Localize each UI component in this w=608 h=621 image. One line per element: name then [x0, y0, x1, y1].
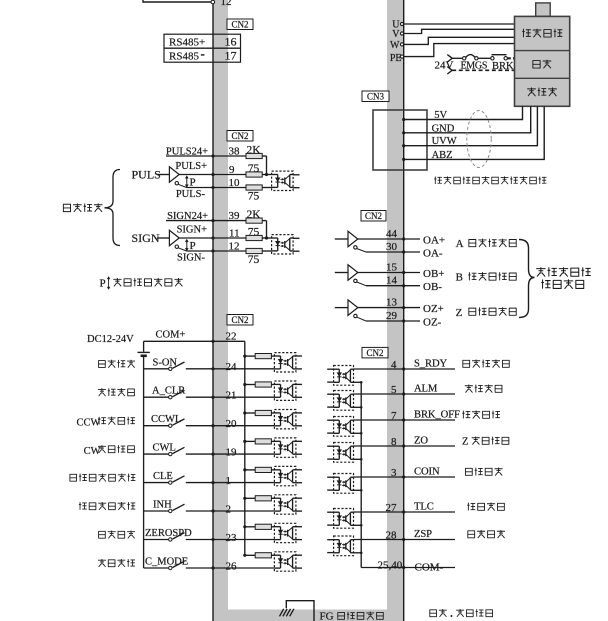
- wire OA- (pin 30): [357, 249, 366, 253]
- svg-text:10: 10: [229, 177, 241, 189]
- switch CCWL: [169, 424, 172, 427]
- svg-text:14: 14: [386, 275, 398, 287]
- svg-text:C_MODE: C_MODE: [145, 557, 188, 568]
- connector label CN2 (output section): [362, 347, 388, 358]
- svg-text:5V: 5V: [434, 110, 447, 121]
- opto output stubs (SIGN): [293, 237, 299, 239]
- wire FG frame ground: [286, 601, 314, 621]
- svg-text:24: 24: [226, 361, 238, 373]
- junction dot OA+: [402, 237, 405, 240]
- connector label CN2 (top): [227, 19, 253, 30]
- chinese description S_RDY: [462, 359, 509, 367]
- optocoupler (PULS input): [272, 171, 294, 190]
- input row CCWL (pin 20): [144, 425, 169, 427]
- chinese description A_CLR: [98, 388, 135, 396]
- connector label CN2 (encoder feedback): [361, 211, 386, 222]
- wire 24V to EMGS: [452, 57, 462, 59]
- wire OZ+ (pin 13): [358, 307, 404, 309]
- resistor 2K (PULS): [246, 153, 262, 158]
- svg-text:75: 75: [248, 254, 260, 266]
- svg-text:16: 16: [225, 35, 237, 49]
- junction dot ZO: [402, 444, 405, 447]
- svg-text:Z: Z: [462, 437, 468, 448]
- 24V supply chevron (+): [447, 55, 452, 62]
- svg-text:SIGN-: SIGN-: [177, 253, 206, 264]
- svg-text:30: 30: [386, 241, 398, 253]
- switch S-ON: [169, 367, 172, 370]
- svg-text:75: 75: [248, 163, 260, 175]
- svg-text:OZ-: OZ-: [423, 316, 442, 328]
- svg-text:COM-: COM-: [415, 561, 444, 573]
- terminal circle PE: [400, 55, 403, 58]
- wire PULS+ (pin 9): [179, 174, 246, 176]
- junction dot S_RDY: [402, 367, 405, 370]
- optocoupler (input A_CLR): [274, 381, 296, 400]
- chinese description BRK_OFF: [462, 410, 500, 418]
- svg-text:DC12-24V: DC12-24V: [87, 334, 134, 345]
- svg-text:OA+: OA+: [423, 234, 445, 246]
- svg-text:S-ON: S-ON: [153, 357, 178, 368]
- twisted-pair symbol P (SIGN): [186, 241, 188, 250]
- 24V return chevron (-): [447, 67, 452, 74]
- wire 75 to opto (SIGN+): [262, 237, 271, 239]
- svg-text:CW: CW: [84, 446, 101, 457]
- wire 75 to opto (PULS-): [262, 187, 271, 189]
- svg-text:PULS-: PULS-: [176, 189, 206, 200]
- switch ZEROSPD: [169, 538, 172, 541]
- connector label CN2 (pulse section): [227, 131, 253, 142]
- junction dot PULS24+: [211, 154, 214, 157]
- rail joint dot (ALM): [360, 406, 363, 409]
- rail joint dot (TLC): [360, 524, 363, 527]
- opto left stubs (S_RDY): [327, 368, 333, 370]
- switch BRK (brake contact): [491, 57, 494, 60]
- svg-text:12: 12: [221, 0, 232, 8]
- chinese description ZEROSPD: [98, 530, 135, 538]
- rail junction dot (S-ON): [243, 355, 246, 358]
- svg-text:SIGN: SIGN: [132, 231, 160, 245]
- svg-text:29: 29: [386, 310, 398, 322]
- svg-text:ZSP: ZSP: [414, 529, 432, 540]
- svg-text:CN3: CN3: [367, 91, 385, 101]
- junction dot BRK_OFF: [402, 418, 405, 421]
- battery symbol DC12-24V: [143, 341, 145, 352]
- junction dot COIN: [402, 475, 405, 478]
- svg-text:Z: Z: [456, 307, 463, 319]
- optocoupler (output ZSP): [334, 536, 354, 556]
- junction dot OZ+: [402, 306, 405, 309]
- wire 5V (encoder cable): [404, 106, 523, 119]
- series resistor (INH): [245, 497, 255, 499]
- svg-text:CN2: CN2: [231, 131, 248, 141]
- opto left stubs (ZSP): [327, 539, 333, 541]
- chassis ground symbol: [280, 609, 284, 617]
- connector label CN2 (input section): [227, 315, 253, 326]
- brace for position command group: [105, 170, 121, 246]
- opto left stubs (BRK_OFF): [327, 419, 333, 421]
- switch A_CLR: [169, 396, 172, 399]
- svg-text:TLC: TLC: [414, 502, 434, 513]
- svg-text:39: 39: [229, 210, 241, 222]
- wire CCWL to connector: [186, 425, 213, 427]
- wire COM+ (pin 22): [144, 340, 213, 342]
- chinese description C_MODE: [98, 559, 135, 567]
- svg-text:5: 5: [391, 384, 397, 396]
- bottom connector bar (gray band): [213, 610, 404, 621]
- wire S-ON to connector: [186, 368, 213, 370]
- chinese description S-ON: [98, 360, 135, 368]
- wire BRK_OFF (pin 7): [354, 419, 404, 421]
- optocoupler (output TLC): [334, 509, 354, 529]
- terminal circle U: [400, 22, 403, 25]
- wire ZEROSPD to connector: [186, 539, 213, 541]
- optocoupler (output S_RDY): [334, 366, 354, 386]
- input row INH (pin 2): [144, 510, 169, 512]
- svg-text:11: 11: [229, 228, 240, 240]
- junction dot OA-: [402, 250, 405, 253]
- label position-command (Chinese): [63, 203, 102, 212]
- optocoupler (input ZEROSPD): [274, 523, 296, 542]
- junction dot 2K/PULS+: [265, 173, 268, 176]
- rail joint dot (COIN): [360, 489, 363, 492]
- output common rail to COM-: [360, 382, 362, 567]
- svg-text:26: 26: [226, 560, 238, 572]
- wire COIN (pin 3): [354, 476, 404, 478]
- resistor 75 (SIGN+): [246, 235, 262, 240]
- opto output stubs (CCWL): [296, 412, 302, 414]
- svg-text:21: 21: [226, 390, 237, 402]
- junction dot ALM: [402, 392, 405, 395]
- terminal circle V: [400, 32, 403, 35]
- wire V to power section: [404, 29, 515, 33]
- input row A_CLR (pin 21): [144, 396, 169, 398]
- svg-text:FG: FG: [320, 611, 334, 621]
- svg-text:ABZ: ABZ: [432, 150, 453, 161]
- opto output stubs (A_CLR): [296, 383, 302, 385]
- junction dot 2K/SIGN+: [265, 236, 268, 239]
- svg-text:PULS+: PULS+: [175, 161, 207, 172]
- input common rail (left): [143, 357, 145, 568]
- rail joint dot (ZO): [360, 458, 363, 461]
- rail joint dot (S_RDY): [360, 381, 363, 384]
- junction dot PULS-: [211, 186, 214, 189]
- svg-text:V: V: [392, 29, 400, 40]
- partial box at top edge (cut off): [143, 0, 213, 2]
- svg-text:W: W: [390, 40, 400, 51]
- junction dot CWL: [211, 453, 214, 456]
- svg-text:SIGN+: SIGN+: [177, 225, 208, 236]
- svg-text:CN2: CN2: [366, 348, 383, 358]
- svg-text:OZ+: OZ+: [423, 303, 444, 315]
- input row CWL (pin 19): [144, 453, 169, 455]
- series resistor (C_MODE): [245, 554, 255, 556]
- wire SIGN- (pin 12): [178, 248, 186, 251]
- optocoupler (input INH): [274, 495, 296, 514]
- junction dot UVW: [402, 144, 405, 147]
- series resistor (CWL): [245, 440, 255, 442]
- wire PE to power section: [404, 44, 515, 57]
- wire OZ- (pin 29): [357, 317, 366, 321]
- brace encoder feedback outputs: [519, 240, 535, 318]
- wire UVW (encoder cable): [404, 106, 538, 145]
- opto output stubs (C_MODE): [296, 554, 302, 556]
- svg-text:P: P: [190, 240, 196, 252]
- svg-text:ALM: ALM: [414, 384, 438, 395]
- series resistor (CCWL): [245, 412, 255, 414]
- junction dot SIGN-: [211, 249, 214, 252]
- switch C_MODE: [169, 566, 172, 569]
- svg-text:1: 1: [226, 475, 232, 487]
- switch CLE: [169, 481, 172, 484]
- junction dot ABZ: [402, 158, 405, 161]
- optocoupler (input CLE): [274, 466, 296, 485]
- optocoupler (output ZO): [334, 443, 354, 463]
- wire TLC (pin 27): [354, 511, 404, 513]
- optocoupler (output BRK_OFF): [334, 417, 354, 437]
- opto left stubs (TLC): [327, 511, 333, 513]
- line driver B-phase: [335, 272, 348, 274]
- label connector shell (Chinese): [337, 612, 383, 620]
- svg-text:SIGN24+: SIGN24+: [167, 211, 208, 222]
- wire EMGS to BRK: [478, 57, 491, 59]
- right connector bar (gray band): [387, 0, 404, 621]
- svg-text:13: 13: [386, 297, 398, 309]
- svg-text:8: 8: [391, 436, 397, 448]
- emitter wire to common rail (BRK_OFF): [354, 432, 362, 434]
- wire OA+ (pin 44): [358, 238, 404, 240]
- inverting circle B-phase: [354, 279, 357, 282]
- opto left stubs (ALM): [327, 393, 333, 395]
- wire GND (encoder cable): [404, 106, 531, 133]
- wire S_RDY (pin 4): [354, 368, 404, 370]
- junction dot CCWL: [211, 424, 214, 427]
- motor assembly box (power/brake/encoder): [536, 3, 551, 17]
- svg-text:2K: 2K: [246, 209, 261, 221]
- junction dot COM-: [402, 566, 405, 569]
- svg-text:A_CLR: A_CLR: [152, 386, 185, 397]
- wire CWL to connector: [186, 453, 213, 455]
- svg-text:75: 75: [248, 227, 260, 239]
- shield ellipse (dashed): [467, 111, 491, 168]
- wire OB+ (pin 15): [358, 272, 404, 274]
- series resistor (S-ON): [245, 355, 255, 357]
- opto left stubs (COIN): [327, 476, 333, 478]
- opto left stubs (ZO): [327, 445, 333, 447]
- wire OB- (pin 14): [357, 282, 366, 286]
- svg-text:20: 20: [226, 418, 238, 430]
- label encoder feedback signal output (Chinese): [536, 267, 591, 276]
- input row S-ON (pin 24): [144, 368, 169, 370]
- left connector pin line: [212, 0, 214, 621]
- resistor 2K (SIGN): [246, 218, 262, 223]
- inverting output circle PULS: [175, 182, 178, 185]
- line driver A-phase: [335, 238, 348, 240]
- input buffer SIGN (line receiver): [157, 237, 169, 239]
- COM+ feed rail (right of connector): [244, 341, 246, 555]
- svg-text:B: B: [456, 272, 463, 284]
- rail junction dot (ZEROSPD): [243, 525, 246, 528]
- svg-text:OA-: OA-: [423, 247, 443, 259]
- svg-text:CN2: CN2: [231, 315, 248, 325]
- emitter wire to common rail (S_RDY): [354, 381, 362, 383]
- switch CWL: [169, 452, 172, 455]
- rail junction dot (C_MODE): [243, 554, 246, 557]
- wire 75 to opto (PULS+): [262, 174, 271, 176]
- rail joint dot (ZSP): [360, 552, 363, 555]
- input row C_MODE (pin 26): [144, 567, 169, 569]
- chinese description ALM: [465, 384, 503, 392]
- svg-text:2K: 2K: [246, 145, 261, 157]
- junction dot OB+: [402, 271, 405, 274]
- rail junction dot (CCWL): [243, 411, 246, 414]
- connector label CN3: [362, 91, 389, 102]
- resistor 75 (SIGN-): [246, 248, 262, 253]
- wire U to power section: [404, 23, 515, 25]
- opto output stubs (PULS): [293, 174, 299, 176]
- svg-text:23: 23: [226, 532, 238, 544]
- wire INH to connector: [186, 510, 213, 512]
- junction dot INH: [211, 509, 214, 512]
- terminal circle at top box corner: [211, 0, 215, 4]
- left connector bar CN2 (gray band): [213, 0, 228, 621]
- input row ZEROSPD (pin 23): [144, 539, 169, 541]
- rail junction dot (CLE): [243, 468, 246, 471]
- series resistor (CLE): [245, 469, 255, 471]
- svg-text:22: 22: [226, 331, 237, 343]
- svg-text:ZEROSPD: ZEROSPD: [145, 528, 192, 539]
- wire W to power section: [404, 37, 515, 44]
- resistor 75 (PULS-): [246, 185, 262, 190]
- wire SIGN24+ (pin 39): [166, 220, 246, 222]
- svg-text:P: P: [100, 278, 106, 290]
- optocoupler (output ALM): [334, 391, 354, 411]
- wire ALM (pin 5): [354, 393, 404, 395]
- inverting circle A-phase: [354, 246, 357, 249]
- svg-text:75: 75: [248, 191, 260, 203]
- chinese description TLC: [467, 502, 505, 510]
- dashed wire BRK to brake box: [508, 57, 515, 59]
- svg-text:CWL: CWL: [153, 443, 176, 454]
- junction dot GND: [402, 131, 405, 134]
- series resistor (A_CLR): [245, 384, 255, 386]
- label encoder (Chinese): [527, 87, 557, 96]
- series resistor (ZEROSPD): [245, 526, 255, 528]
- junction dot SIGN+ at connector: [211, 236, 214, 239]
- wire CLE to connector: [186, 482, 213, 484]
- svg-text:UVW: UVW: [432, 136, 457, 147]
- junction dot SIGN24+: [211, 219, 214, 222]
- svg-text:-: -: [201, 46, 205, 61]
- emitter wire to common rail (ALM): [354, 406, 362, 408]
- svg-text:CCW: CCW: [77, 418, 101, 429]
- junction dot ZEROSPD: [211, 538, 214, 541]
- chinese description ZSP: [467, 530, 505, 538]
- svg-text:CN2: CN2: [365, 211, 382, 221]
- note: handle shielded wire ends properly (Chinese): [434, 176, 546, 184]
- svg-text:CCWL: CCWL: [151, 414, 181, 425]
- optocoupler (input CCWL): [274, 410, 296, 429]
- svg-text:COIN: COIN: [414, 467, 440, 478]
- svg-text:A: A: [456, 238, 464, 250]
- switch EMGS (emergency stop): [463, 57, 466, 60]
- optocoupler (SIGN input): [272, 235, 294, 254]
- svg-text:CLE: CLE: [153, 471, 173, 482]
- svg-text:OB+: OB+: [423, 268, 444, 280]
- opto output stubs (ZEROSPD): [296, 526, 302, 528]
- junction dot CLE: [211, 481, 214, 484]
- svg-text:CN2: CN2: [231, 20, 248, 30]
- junction dot TLC: [402, 510, 405, 513]
- right connector pin line: [403, 0, 405, 621]
- wire 75 to opto (SIGN-): [262, 250, 271, 252]
- optocoupler (output COIN): [334, 474, 354, 494]
- wire ZO (pin 8): [354, 445, 404, 447]
- wire ZSP (pin 28): [354, 539, 404, 541]
- junction dot COM+: [211, 340, 214, 343]
- opto output stubs (INH): [296, 497, 302, 499]
- chinese description CLE: [70, 474, 136, 482]
- svg-text:BRK_OFF: BRK_OFF: [414, 410, 460, 421]
- note: optocoupler output (Chinese): [429, 609, 446, 617]
- junction dot PULS+ at connector: [211, 173, 214, 176]
- svg-text:OB-: OB-: [423, 281, 442, 293]
- rail joint dot (BRK_OFF): [360, 432, 363, 435]
- opto output stubs (CLE): [296, 469, 302, 471]
- wire 2K to PULS+ junction: [262, 155, 266, 157]
- svg-text:PE: PE: [390, 53, 402, 64]
- RS485 terminal table: [164, 34, 241, 62]
- svg-text:ZO: ZO: [414, 436, 428, 447]
- emitter wire to common rail (ZO): [354, 458, 362, 460]
- wire SIGN+ (pin 11): [179, 237, 246, 239]
- label power section (Chinese): [522, 29, 562, 38]
- svg-text:PULS24+: PULS24+: [166, 147, 208, 158]
- svg-text:9: 9: [229, 164, 235, 176]
- wire C_MODE to connector: [186, 567, 213, 569]
- line driver Z-phase: [335, 307, 348, 309]
- svg-text:44: 44: [386, 228, 398, 240]
- dashed wire 24V return: [452, 69, 514, 71]
- twisted-pair symbol P (PULS): [186, 177, 188, 186]
- svg-text:4: 4: [391, 359, 397, 371]
- input row CLE (pin 1): [144, 482, 169, 484]
- rail junction dot (A_CLR): [243, 383, 246, 386]
- junction dot A_CLR: [211, 396, 214, 399]
- svg-text:PULS: PULS: [132, 168, 161, 182]
- svg-text:12: 12: [229, 241, 240, 253]
- svg-text:RS485: RS485: [169, 50, 199, 62]
- emitter wire to common rail (ZSP): [354, 552, 362, 554]
- junction dot OB-: [402, 284, 405, 287]
- optocoupler (input C_MODE): [274, 552, 296, 571]
- svg-text:38: 38: [229, 146, 241, 158]
- encoder terminal box: [373, 110, 427, 170]
- wire PULS24+ (pin 38): [166, 155, 246, 157]
- wire 2K to SIGN+ junction: [262, 220, 266, 222]
- emitter wire to common rail (TLC): [354, 524, 362, 526]
- svg-text:INH: INH: [153, 500, 172, 511]
- wire COM- (pins 25,40): [361, 567, 404, 569]
- svg-text:28: 28: [386, 529, 398, 541]
- svg-text:S_RDY: S_RDY: [414, 359, 448, 370]
- junction dot ZSP: [402, 538, 405, 541]
- optocoupler (input CWL): [274, 438, 296, 457]
- input buffer PULS (line receiver): [157, 174, 169, 176]
- svg-text:25,40: 25,40: [378, 559, 403, 571]
- opto output stubs (S-ON): [296, 355, 302, 357]
- inverting circle Z-phase: [354, 314, 357, 317]
- junction dot 5V: [402, 118, 405, 121]
